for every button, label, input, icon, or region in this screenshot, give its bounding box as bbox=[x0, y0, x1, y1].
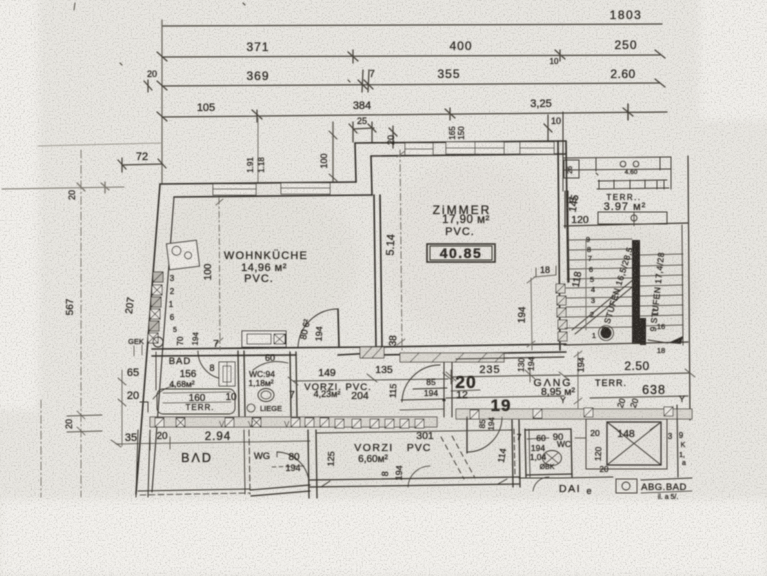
steps left flight bbox=[565, 239, 632, 328]
zimmer interior dim vertical 5.14 bbox=[397, 150, 405, 350]
divider wall wohnkueche/zimmer bbox=[374, 195, 376, 348]
newel filled circle bbox=[601, 328, 612, 339]
property line horizontal left bbox=[2, 187, 124, 189]
shower bbox=[543, 451, 562, 466]
steps right flight bbox=[640, 254, 683, 326]
dim line 369/7/355/2.60 bbox=[162, 83, 660, 86]
kitchen door leaf+arc bbox=[338, 309, 339, 347]
parapet under zimmer/gang bbox=[400, 353, 504, 362]
bad room bottom bbox=[148, 430, 150, 497]
small rooms right of 19 bbox=[514, 429, 515, 477]
left property verticals bbox=[80, 150, 82, 497]
direction arrow bottom right bbox=[668, 336, 683, 344]
sub dim 20 rotated at x393 bbox=[392, 126, 394, 148]
gang west wall bbox=[444, 362, 452, 417]
dim line 371/400/250 bbox=[162, 55, 660, 57]
dim line 149/135 bbox=[293, 379, 448, 381]
dim line 105/384/3.25 bbox=[162, 112, 667, 117]
gek circle bbox=[153, 337, 163, 347]
left stair dim 118 bbox=[585, 240, 587, 330]
gang mid line bbox=[446, 396, 564, 398]
hatched pier left of 135 bbox=[360, 347, 384, 358]
step wall between wohnkueche and zimmer bbox=[355, 143, 356, 182]
stringer dark bar bbox=[632, 240, 640, 344]
hatch column east zimmer wall bbox=[556, 284, 567, 341]
dim 72 at left bbox=[122, 164, 162, 165]
south wall gang hatched band bbox=[456, 409, 692, 419]
big door arc gang to rooms bbox=[466, 417, 468, 453]
shaft with X bbox=[586, 419, 667, 469]
2.94 dim line bbox=[116, 441, 310, 444]
bad156 door arc bbox=[198, 351, 225, 379]
balcony top right bbox=[563, 152, 671, 228]
north wall wohnkueche outer/inner bbox=[160, 182, 356, 184]
vorzi bottom room bbox=[317, 430, 512, 433]
sink unit top-left wohnkueche bbox=[167, 240, 200, 269]
door arcs on vorzi bottom wall bbox=[408, 466, 430, 487]
dim 194 below stairs bbox=[574, 351, 582, 408]
wc bottom wall bbox=[250, 485, 310, 496]
bottom right labels area bbox=[560, 477, 613, 478]
gek dim small bbox=[134, 345, 142, 356]
hatched south band left part bbox=[150, 417, 437, 427]
door box with plus bbox=[219, 362, 235, 386]
east wall zimmer double bbox=[558, 141, 560, 350]
gang top boundary bbox=[456, 357, 564, 359]
wc bottom room bbox=[308, 430, 317, 498]
outer slanted west wall bbox=[136, 184, 160, 494]
terr rounded box bbox=[157, 389, 235, 414]
left dim column 65/20/35 bbox=[121, 370, 123, 446]
dim 2.50 line under stairs bbox=[564, 373, 690, 376]
window openings north wohnkueche bbox=[213, 183, 330, 195]
40.85 double box bbox=[427, 244, 495, 262]
window openings north zimmer bbox=[405, 142, 554, 155]
north wall zimmer outer/inner bbox=[355, 141, 566, 143]
faint line to building corner bbox=[38, 143, 162, 146]
right dim extension from 3.25 line bbox=[562, 112, 564, 157]
sub dim 10 bbox=[547, 115, 549, 141]
top line of stairs / terr floor bbox=[564, 223, 688, 226]
south wall wohnkueche bbox=[152, 347, 374, 349]
stair bottom line bbox=[564, 342, 688, 345]
kitchen counter boxes bbox=[242, 331, 286, 347]
dim extension vertical at x162 bbox=[161, 20, 163, 184]
stair hall left wall bbox=[568, 225, 569, 282]
west wall hatch squares bbox=[148, 272, 163, 343]
dashed diagonals vorzi bbox=[441, 437, 464, 479]
toilet bbox=[258, 389, 274, 402]
dim 18 small zimmer bbox=[536, 266, 556, 277]
wc60 door arc bbox=[253, 362, 288, 370]
zimmer dim vertical 194 right bbox=[527, 275, 556, 350]
dim 100 at step corner bbox=[332, 122, 334, 182]
stair hall right wall bbox=[688, 156, 690, 420]
wc upper box bbox=[290, 352, 297, 416]
dim line 1803 bbox=[162, 24, 662, 26]
going diagonal double bbox=[572, 279, 634, 330]
dim 638 line bbox=[590, 396, 688, 398]
sub dim 25 over window bbox=[353, 128, 374, 129]
wohnkueche interior dim verticals bbox=[216, 198, 223, 350]
gang west door arc bbox=[402, 365, 440, 402]
bad156 box bbox=[155, 352, 157, 390]
extension line x258 to wall bbox=[257, 118, 259, 183]
south wall zimmer double bbox=[374, 344, 566, 347]
stray specks bbox=[74, 3, 75, 10]
